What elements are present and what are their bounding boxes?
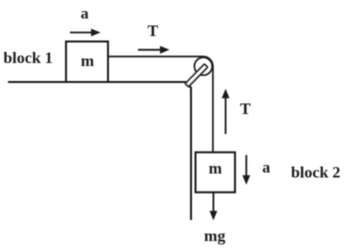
svg-text:block 2: block 2 [291, 164, 340, 181]
svg-text:a: a [262, 159, 270, 176]
svg-text:block 1: block 1 [3, 50, 52, 67]
acceleration arrow a (block 1) [70, 29, 101, 37]
tension arrow T (horizontal) [138, 46, 170, 54]
svg-text:a: a [81, 6, 89, 23]
pulley wheel [194, 57, 212, 75]
block 1 (mass m) [66, 42, 108, 83]
pulley bracket [185, 64, 208, 87]
block 2 (mass m) [196, 152, 236, 192]
rope (horizontal from block 1, over pulley, down to block 2) [107, 57, 213, 154]
svg-text:T: T [148, 23, 159, 40]
svg-text:mg: mg [204, 228, 225, 245]
acceleration arrow a (block 2, downward) [242, 155, 250, 185]
weight arrow mg (below block 2) [210, 192, 218, 220]
svg-text:m: m [81, 53, 95, 70]
tension arrow T (vertical, upward) [222, 89, 230, 134]
svg-text:T: T [240, 101, 251, 118]
svg-text:m: m [209, 160, 223, 177]
table surface (horizontal top, chamfer corner, vertical edge) [8, 82, 191, 220]
